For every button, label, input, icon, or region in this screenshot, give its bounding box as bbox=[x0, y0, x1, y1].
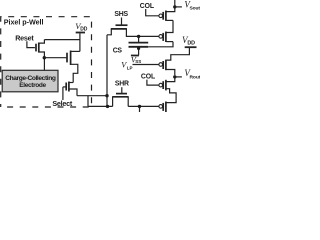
node: SHR sample node junction bbox=[138, 105, 141, 108]
svg-text:Select: Select bbox=[52, 99, 73, 108]
wire: stub down (cut at frame) bbox=[139, 106, 141, 112]
power VDD rail (right) bbox=[185, 46, 197, 48]
svg-text:COL: COL bbox=[141, 73, 155, 80]
transistor Select bbox=[63, 82, 77, 101]
transistor SF (in-pixel source follower) bbox=[44, 51, 80, 83]
power VSS rail under CS bbox=[131, 55, 139, 57]
svg-text:Sout: Sout bbox=[190, 6, 201, 12]
transistor SHR (sample & hold reset switch) bbox=[112, 87, 128, 106]
wire: Sout bus up (cut at frame) bbox=[174, 0, 176, 7]
svg-text:Rout: Rout bbox=[190, 74, 201, 80]
svg-text:SHS: SHS bbox=[114, 11, 128, 18]
svg-text:DD: DD bbox=[80, 27, 88, 33]
wire: SHR output line to M3 gate bbox=[128, 105, 159, 107]
wire: Rout node down to COL2 bbox=[166, 77, 175, 82]
svg-text:COL: COL bbox=[140, 3, 154, 10]
transistor M1 (output SF, gate from CS) bbox=[159, 20, 173, 42]
node: V_Sout tap bbox=[173, 5, 176, 8]
pixel p-well dashed boundary bbox=[1, 17, 92, 107]
wire: VDD rail to reset/SF drains bbox=[79, 33, 81, 51]
node B (bus bottom tap) bbox=[106, 105, 109, 108]
wire: cap bottom to top-block SF source bbox=[148, 42, 173, 47]
node: V_Rout tap bbox=[173, 75, 176, 78]
node: charge node (reset source / SF gate / electrode) bbox=[43, 58, 45, 71]
wire: to V_Sout label bbox=[175, 6, 182, 8]
svg-text:Pixel p-Well: Pixel p-Well bbox=[4, 17, 44, 26]
wire: to V_Rout label bbox=[175, 76, 182, 78]
power VDD (pixel) bbox=[76, 32, 85, 34]
wire: pixel output to SHS/SHR bus bbox=[77, 95, 107, 97]
svg-text:LP: LP bbox=[127, 66, 133, 71]
wire: vertical bus bbox=[106, 35, 108, 107]
wire: V_LP line to load gate bbox=[133, 64, 159, 66]
svg-text:DD: DD bbox=[187, 41, 195, 47]
svg-text:SHR: SHR bbox=[115, 81, 129, 88]
svg-text:CS: CS bbox=[113, 47, 123, 54]
svg-text:Reset: Reset bbox=[15, 33, 34, 42]
transistor Reset bbox=[27, 40, 45, 58]
svg-text:SS: SS bbox=[135, 59, 141, 64]
transistor SHS (sample & hold signal switch) bbox=[107, 18, 139, 37]
svg-text:Charge-Collecting: Charge-Collecting bbox=[5, 75, 56, 82]
capacitor CS bbox=[129, 36, 149, 55]
transistor COL (top column select) bbox=[146, 7, 175, 21]
svg-text:Electrode: Electrode bbox=[19, 82, 46, 89]
transistor M_LP (load, gate V_LP) bbox=[159, 48, 190, 75]
node A (bus top tap) bbox=[105, 94, 108, 97]
wire: CS node line to PMOS SF gate bbox=[139, 35, 159, 37]
transistor M3 (SF for reset level, cut at frame) bbox=[159, 102, 167, 113]
node: CS node junction bbox=[137, 35, 140, 38]
charge-collecting electrode bbox=[2, 70, 58, 92]
transistor COL2 (bottom column select) bbox=[147, 80, 176, 103]
